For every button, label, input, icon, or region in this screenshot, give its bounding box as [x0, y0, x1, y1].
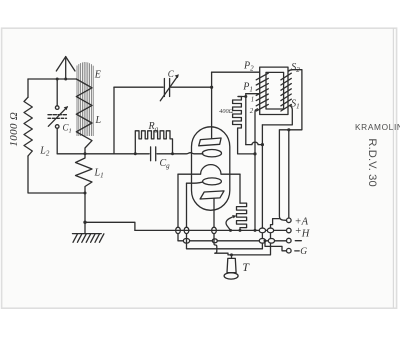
svg-text:L: L — [95, 115, 102, 126]
svg-text:KRAMOLIN: KRAMOLIN — [355, 122, 400, 132]
svg-text:2: 2 — [250, 108, 254, 115]
svg-text:C: C — [168, 69, 175, 79]
svg-text:400Ω: 400Ω — [219, 108, 233, 115]
svg-text:G: G — [300, 247, 307, 257]
svg-text:R.D.V. 30: R.D.V. 30 — [366, 138, 378, 186]
svg-text:1000 Ω: 1000 Ω — [8, 112, 20, 147]
svg-text:E: E — [94, 70, 101, 81]
svg-text:1: 1 — [251, 96, 254, 103]
